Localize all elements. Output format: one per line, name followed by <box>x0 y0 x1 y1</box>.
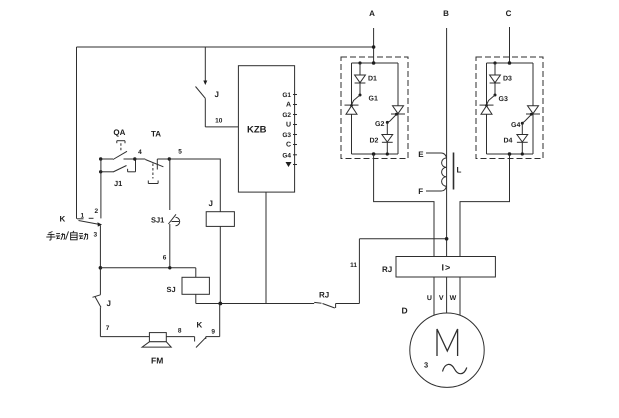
svg-text:J: J <box>107 299 111 308</box>
svg-text:U: U <box>427 295 432 302</box>
junction module2 top center <box>508 61 512 65</box>
thyristor G2 <box>391 106 405 116</box>
svg-text:G2: G2 <box>375 121 384 128</box>
pin G4 of KZB <box>282 152 297 159</box>
动 character <box>56 233 60 235</box>
svg-text:11: 11 <box>350 262 357 269</box>
svg-text:B: B <box>443 9 449 18</box>
svg-text:4: 4 <box>138 149 142 156</box>
wire K contact riser to bottom junction <box>219 304 221 337</box>
svg-text:D: D <box>402 306 408 316</box>
node 8 <box>178 328 182 335</box>
junction bottom row / J-K drop <box>218 302 222 306</box>
svg-text:E: E <box>418 150 424 159</box>
svg-text:J: J <box>209 199 213 208</box>
node 6 <box>163 255 172 270</box>
pin U of KZB <box>286 121 297 128</box>
svg-text:I>: I> <box>442 263 452 273</box>
junction V line / node 11 feeder <box>445 237 449 241</box>
svg-text:G3: G3 <box>282 132 291 139</box>
svg-text:C: C <box>286 141 291 148</box>
node F terminal <box>418 187 423 196</box>
inductor L coil <box>426 153 446 191</box>
wire G1 gate lead <box>352 95 361 105</box>
svg-text:D3: D3 <box>503 76 512 83</box>
svg-text:L: L <box>457 166 462 175</box>
svg-text:SJ1: SJ1 <box>151 216 164 225</box>
op-amp KZB control box U1 <box>238 66 294 192</box>
wire module 2 inner frame <box>487 63 534 154</box>
svg-text:5: 5 <box>178 149 182 156</box>
module 2 dashed enclosure <box>476 57 543 159</box>
node U motor terminal <box>427 295 432 302</box>
svg-text:3: 3 <box>424 361 428 370</box>
svg-text:D4: D4 <box>504 138 513 145</box>
node E terminal <box>418 150 424 159</box>
wire node 11 riser <box>358 239 360 304</box>
wire KZB bottom return lead <box>265 192 267 304</box>
svg-text:QA: QA <box>113 128 125 137</box>
pin G1 of KZB <box>282 92 297 99</box>
junction module2 D3 branch top <box>493 61 496 64</box>
buzzer FM <box>142 333 171 366</box>
svg-text:K: K <box>197 321 203 330</box>
svg-text:W: W <box>450 295 457 302</box>
svg-text:G3: G3 <box>499 96 508 103</box>
thyristor G1 <box>345 104 359 114</box>
pin G2 of KZB <box>282 112 297 119</box>
junction J1 row / riser <box>99 170 102 173</box>
wire node 11 feeder to V line <box>359 238 446 240</box>
svg-text:RJ: RJ <box>382 265 392 274</box>
diode D1 <box>355 63 377 95</box>
wire top horizontal bus <box>77 46 374 48</box>
contact TA thermal <box>135 130 170 184</box>
junction QA row / riser <box>99 157 102 160</box>
module 1 dashed enclosure <box>341 57 408 159</box>
junction module2 bottom center <box>508 152 512 156</box>
junction module1 D2 branch bottom <box>386 152 389 155</box>
svg-text:FM: FM <box>151 356 163 366</box>
slash separator <box>66 231 69 239</box>
svg-text:G1: G1 <box>282 92 291 99</box>
contact RJ (alarm circuit) <box>314 291 335 309</box>
wire module 1 inner frame <box>352 63 399 154</box>
svg-text:7: 7 <box>106 325 110 332</box>
pin W of KZB (arrow) <box>286 162 298 167</box>
inductor L value label <box>457 166 462 175</box>
switch QA <box>101 128 135 159</box>
relay RJ overcurrent element <box>396 257 495 278</box>
thyristor G3 <box>480 104 494 114</box>
node 7 <box>106 325 110 332</box>
svg-text:2: 2 <box>95 208 99 215</box>
svg-text:SJ: SJ <box>167 285 176 294</box>
wire alarm bottom row <box>100 336 194 338</box>
relay SJ coil <box>167 268 210 304</box>
svg-text:G4: G4 <box>282 152 291 159</box>
svg-text:A: A <box>286 101 291 108</box>
node 4 <box>133 149 142 161</box>
node 5 <box>168 149 183 161</box>
svg-text:J1: J1 <box>114 179 122 188</box>
svg-text:RJ: RJ <box>319 291 329 300</box>
node 11 <box>350 262 357 269</box>
junction module1 top center <box>372 61 376 65</box>
contact J (alarm branch, left rail) <box>93 268 111 337</box>
wire bottom junction row <box>196 303 314 305</box>
diode D4 <box>504 123 528 154</box>
relay J coil <box>206 199 234 226</box>
svg-text:K: K <box>60 215 66 224</box>
node manual/auto label 手动/自动 <box>46 231 87 240</box>
node G3 gate junction <box>494 94 508 104</box>
contact J1 (parallel with QA) <box>101 159 136 188</box>
手 character (manual) <box>49 232 53 234</box>
pin G3 of KZB <box>282 132 297 139</box>
动 character (2nd) <box>79 233 83 235</box>
node RJ label <box>382 265 392 274</box>
svg-text:TA: TA <box>151 130 161 139</box>
pin A of KZB <box>286 101 297 108</box>
svg-text:9: 9 <box>211 329 215 336</box>
junction top bus / phase A <box>372 45 376 49</box>
wire G3 gate lead <box>487 95 496 105</box>
motor M1 three-phase <box>410 313 484 387</box>
svg-text:D1: D1 <box>368 76 377 83</box>
node W motor terminal <box>450 295 457 302</box>
contact K (alarm branch) <box>195 321 220 348</box>
svg-text:8: 8 <box>178 328 182 335</box>
wire left rail down to K switch <box>76 47 78 219</box>
自 character <box>73 231 74 233</box>
svg-text:G2: G2 <box>282 112 291 119</box>
diode D2 <box>370 122 393 154</box>
svg-text:10: 10 <box>215 118 223 125</box>
wire phase A lead-in <box>373 28 375 63</box>
wire module2 output to W line <box>460 154 510 257</box>
node 9 <box>211 329 215 336</box>
diode D3 <box>490 63 512 95</box>
node G2 gate junction <box>375 121 389 128</box>
thyristor G4 <box>526 106 540 116</box>
inductor L core bar <box>453 153 455 190</box>
svg-text:J: J <box>215 90 219 99</box>
svg-text:C: C <box>506 9 512 18</box>
contact SJ1 time-delay <box>151 159 180 268</box>
svg-text:G1: G1 <box>369 95 378 102</box>
pin C of KZB <box>286 141 297 148</box>
svg-text:KZB: KZB <box>247 125 267 136</box>
svg-text:6: 6 <box>163 255 167 262</box>
node 10 <box>215 118 223 125</box>
junction left rail / node6 row <box>99 266 103 270</box>
wire RJ contact to riser <box>336 303 360 305</box>
wire module1 output to U line <box>374 154 434 257</box>
node G1 gate junction <box>359 94 378 103</box>
node V motor terminal <box>439 295 444 302</box>
wire node 10 to KZB <box>205 126 238 128</box>
junction module2 D4 branch bottom <box>521 152 524 155</box>
wire phase C lead-in <box>509 27 511 63</box>
wire K pos3 drop to node 6 row <box>99 226 101 268</box>
wire U line RJ to motor <box>433 277 435 316</box>
svg-text:1: 1 <box>81 213 85 220</box>
svg-text:A: A <box>369 9 375 18</box>
junction module1 bottom center <box>372 152 376 156</box>
svg-text:3: 3 <box>94 232 98 239</box>
wire V line RJ to motor <box>446 277 448 313</box>
wire K pos2 riser to QA row <box>100 159 102 218</box>
wire W line RJ to motor <box>459 277 461 316</box>
node C phase terminal <box>506 9 512 18</box>
wire G2 gate lead <box>387 115 396 123</box>
node J label (top contact) <box>215 90 219 99</box>
wire G4 gate lead <box>522 115 531 123</box>
svg-text:D2: D2 <box>370 138 379 145</box>
node D label <box>402 306 408 316</box>
svg-text:F: F <box>418 187 423 196</box>
node B phase terminal <box>443 9 449 18</box>
wire J coil to bottom junction <box>219 226 221 303</box>
wire phase B line down to RJ box <box>446 28 448 257</box>
svg-text:U: U <box>286 121 291 128</box>
contact J (top, feeds KZB pin 10) <box>196 47 208 127</box>
svg-text:G4: G4 <box>511 122 520 129</box>
wire node5 to relay J coil <box>169 159 220 212</box>
switch K selector (manual/auto) <box>60 208 103 239</box>
node G4 gate junction <box>511 122 524 129</box>
junction module1 D1 branch top <box>358 61 361 64</box>
svg-text:V: V <box>439 295 444 302</box>
node A phase terminal <box>369 9 375 18</box>
wire node6 row horizontal <box>100 267 195 269</box>
